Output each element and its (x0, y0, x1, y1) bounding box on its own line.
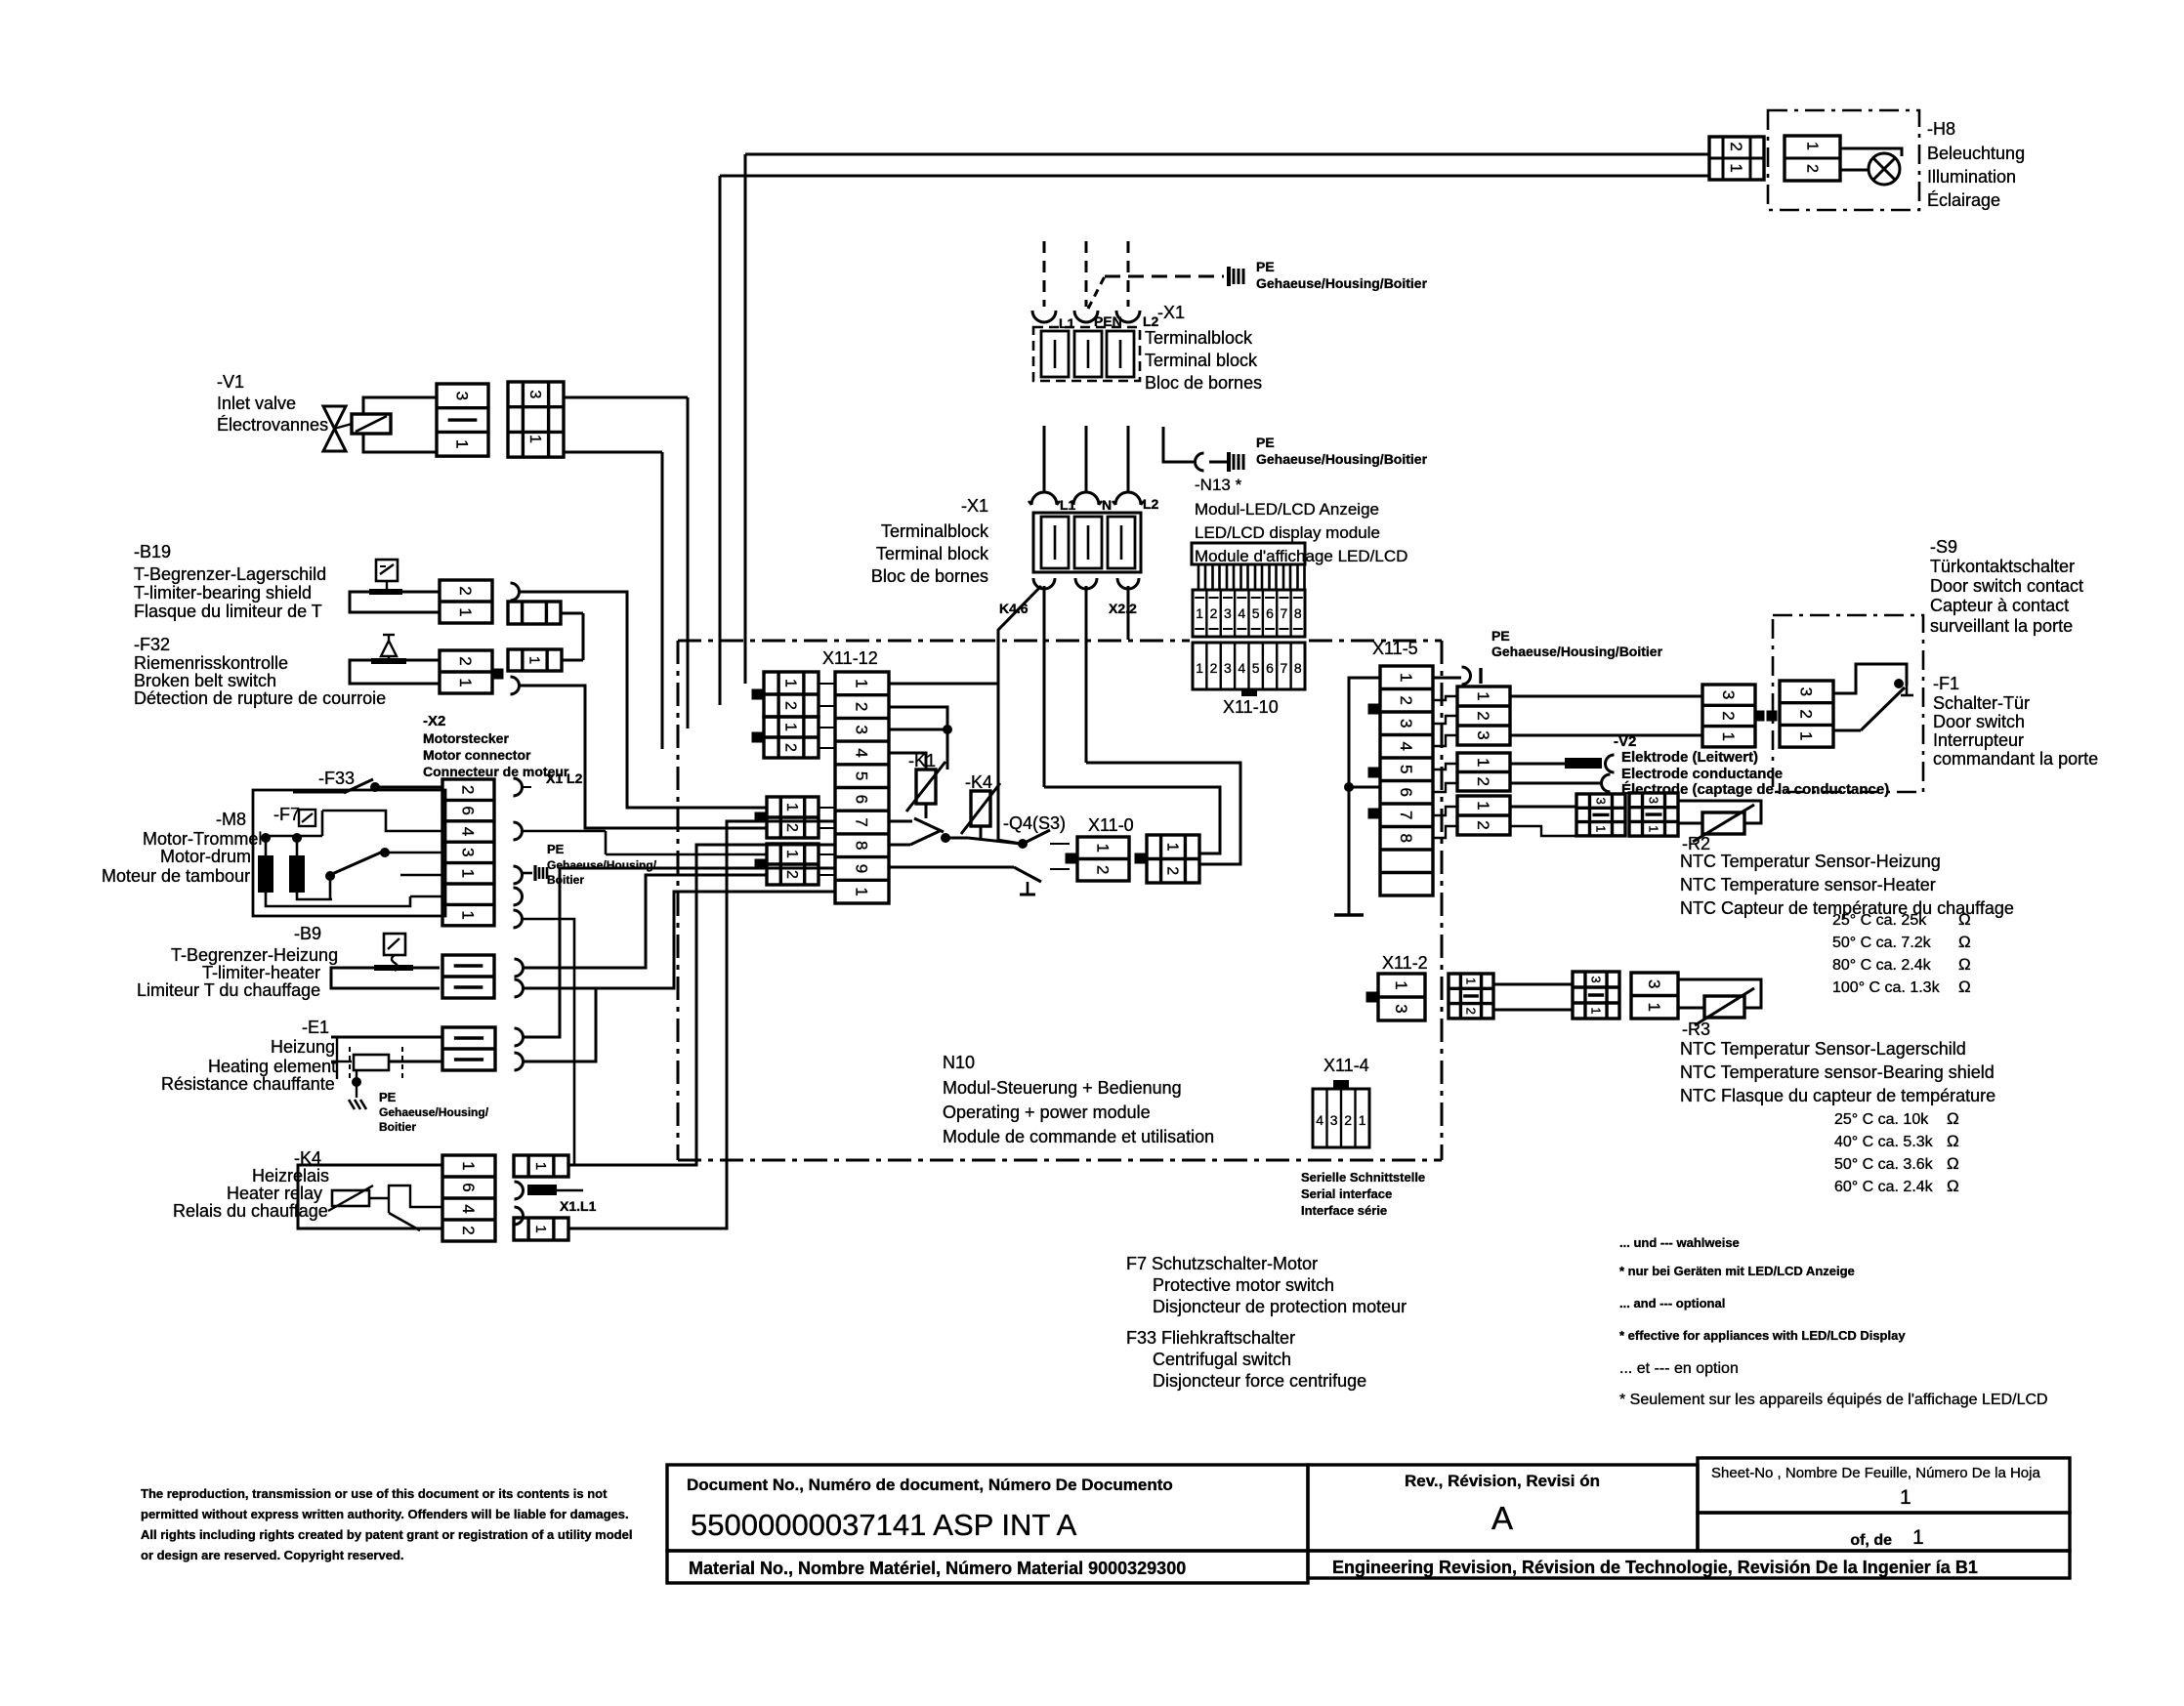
svg-text:Motor-Trommel: Motor-Trommel (143, 829, 262, 849)
svg-text:surveillant la porte: surveillant la porte (1930, 616, 2073, 636)
svg-text:Illumination: Illumination (1927, 167, 2016, 187)
svg-text:Relais du chauffage: Relais du chauffage (173, 1201, 328, 1221)
svg-text:5: 5 (1252, 660, 1260, 676)
svg-text:2: 2 (456, 586, 475, 595)
svg-text:3: 3 (1392, 1004, 1410, 1013)
svg-text:Elektrode (Leitwert): Elektrode (Leitwert) (1621, 749, 1758, 766)
svg-text:4: 4 (459, 827, 478, 836)
svg-text:NTC Temperature sensor-Bearing: NTC Temperature sensor-Bearing shield (1680, 1062, 1995, 1082)
svg-text:3: 3 (853, 726, 871, 734)
svg-text:-H8: -H8 (1927, 119, 1955, 139)
svg-text:T-Begrenzer-Lagerschild: T-Begrenzer-Lagerschild (134, 564, 326, 584)
svg-text:NTC Temperature sensor-Heater: NTC Temperature sensor-Heater (1680, 875, 1936, 895)
svg-text:2: 2 (1803, 164, 1820, 173)
svg-text:1: 1 (1196, 660, 1203, 676)
svg-text:7: 7 (1281, 605, 1288, 621)
svg-text:T-limiter-bearing shield: T-limiter-bearing shield (134, 583, 312, 603)
svg-text:1: 1 (1912, 1526, 1924, 1549)
svg-text:2: 2 (781, 743, 798, 752)
svg-text:Heating element: Heating element (208, 1057, 336, 1076)
svg-text:1: 1 (1645, 1003, 1663, 1012)
svg-text:Motor-drum: Motor-drum (160, 847, 251, 866)
svg-text:PE: PE (1256, 435, 1275, 450)
svg-text:3: 3 (1645, 979, 1663, 988)
svg-text:Interface série: Interface série (1301, 1203, 1387, 1218)
svg-text:2: 2 (1797, 709, 1816, 718)
svg-text:-X1: -X1 (1157, 303, 1185, 322)
svg-text:7: 7 (1281, 660, 1288, 676)
svg-text:1: 1 (1727, 163, 1745, 172)
svg-text:-B19: -B19 (134, 542, 171, 562)
svg-text:1: 1 (1803, 142, 1820, 150)
svg-text:Serial interface: Serial interface (1301, 1186, 1392, 1201)
svg-text:F33 Fliehkraftschalter: F33 Fliehkraftschalter (1126, 1328, 1295, 1348)
svg-text:4: 4 (1238, 660, 1245, 676)
svg-text:1: 1 (1463, 978, 1478, 984)
svg-text:9: 9 (853, 864, 871, 873)
svg-text:1: 1 (783, 850, 800, 858)
svg-text:25° C ca. 10k: 25° C ca. 10k (1834, 1111, 1929, 1128)
svg-text:Disjoncteur force centrifuge: Disjoncteur force centrifuge (1153, 1371, 1366, 1391)
svg-text:X11-0: X11-0 (1088, 815, 1134, 835)
svg-text:-F33: -F33 (318, 769, 355, 788)
svg-text:F7 Schutzschalter-Motor: F7 Schutzschalter-Motor (1126, 1254, 1318, 1273)
svg-text:Terminal block: Terminal block (876, 544, 989, 563)
svg-text:L2: L2 (1143, 496, 1159, 512)
svg-text:* Seulement sur les appareils: * Seulement sur les appareils équipés de… (1619, 1392, 2048, 1408)
svg-text:Sheet-No , Nombre De Feuille,: Sheet-No , Nombre De Feuille, Número De … (1711, 1465, 2040, 1481)
svg-text:Ω: Ω (1958, 978, 1971, 996)
svg-text:-K4: -K4 (965, 772, 992, 792)
svg-text:3: 3 (1719, 690, 1738, 699)
svg-text:1: 1 (1196, 605, 1203, 621)
svg-text:100° C ca. 1.3k: 100° C ca. 1.3k (1832, 979, 1941, 996)
svg-text:X11-10: X11-10 (1223, 697, 1279, 717)
svg-text:Heater relay: Heater relay (227, 1184, 322, 1203)
svg-text:Ω: Ω (1958, 955, 1971, 974)
svg-text:X11-4: X11-4 (1323, 1056, 1369, 1075)
svg-text:3: 3 (1588, 976, 1603, 982)
svg-text:1: 1 (459, 910, 478, 919)
svg-text:permitted without express wri: permitted without express written author… (141, 1507, 629, 1521)
svg-text:2: 2 (1474, 820, 1492, 829)
svg-text:3: 3 (1224, 605, 1232, 621)
svg-text:1: 1 (456, 607, 475, 616)
svg-text:-M8: -M8 (216, 810, 246, 829)
svg-text:5: 5 (1252, 605, 1260, 621)
svg-text:NTC Temperatur Sensor-Heizung: NTC Temperatur Sensor-Heizung (1680, 852, 1941, 871)
svg-text:1: 1 (1588, 1007, 1603, 1014)
svg-text:Rev., Révision, Revisi ón: Rev., Révision, Revisi ón (1405, 1472, 1600, 1490)
svg-text:-X2: -X2 (423, 713, 445, 729)
svg-text:Bloc de bornes: Bloc de bornes (1145, 373, 1262, 393)
svg-text:Terminalblock: Terminalblock (1145, 328, 1253, 348)
svg-text:Gehaeuse/Housing/Boitier: Gehaeuse/Housing/Boitier (1256, 451, 1428, 467)
svg-text:A: A (1491, 1500, 1513, 1536)
svg-text:1: 1 (459, 869, 478, 878)
svg-text:T-Begrenzer-Heizung: T-Begrenzer-Heizung (171, 945, 338, 965)
svg-text:6: 6 (1397, 788, 1415, 797)
svg-text:2: 2 (1463, 1008, 1478, 1015)
svg-text:Gehaeuse/Housing/: Gehaeuse/Housing/ (547, 858, 657, 872)
svg-text:3: 3 (459, 848, 478, 856)
svg-text:Gehaeuse/Housing/Boitier: Gehaeuse/Housing/Boitier (1256, 275, 1428, 291)
svg-text:4: 4 (459, 1204, 478, 1213)
svg-text:Électrovannes: Électrovannes (217, 415, 328, 435)
svg-text:4: 4 (1238, 605, 1245, 621)
svg-text:Terminal block: Terminal block (1145, 351, 1258, 370)
svg-text:-R2: -R2 (1682, 834, 1710, 853)
svg-text:2: 2 (1397, 696, 1415, 705)
svg-text:2: 2 (1210, 605, 1218, 621)
svg-text:Operating + power module: Operating + power module (943, 1103, 1151, 1122)
svg-text:2: 2 (1210, 660, 1218, 676)
svg-text:Electrode conductance: Electrode conductance (1621, 766, 1783, 782)
svg-text:2: 2 (1344, 1112, 1352, 1128)
svg-text:3: 3 (1797, 687, 1816, 696)
svg-text:of, de: of, de (1850, 1532, 1892, 1549)
svg-text:-S9: -S9 (1930, 537, 1957, 557)
svg-text:2: 2 (1474, 777, 1492, 786)
svg-text:1: 1 (525, 656, 542, 664)
svg-text:-V1: -V1 (217, 372, 244, 392)
svg-text:1: 1 (532, 1225, 549, 1232)
svg-text:-F7: -F7 (273, 805, 300, 824)
svg-text:2: 2 (459, 1226, 478, 1234)
svg-text:1: 1 (456, 678, 475, 687)
svg-text:1: 1 (1163, 843, 1180, 852)
svg-text:Modul-LED/LCD Anzeige: Modul-LED/LCD Anzeige (1195, 500, 1379, 519)
svg-text:3: 3 (1646, 797, 1660, 804)
svg-text:Heizung: Heizung (271, 1037, 335, 1057)
svg-text:LED/LCD display module: LED/LCD display module (1195, 523, 1380, 542)
svg-text:PE: PE (547, 842, 565, 856)
svg-text:1: 1 (853, 679, 871, 687)
svg-text:Engineering Revision, Révision: Engineering Revision, Révision de Techno… (1332, 1558, 1978, 1577)
svg-text:40° C ca. 5.3k: 40° C ca. 5.3k (1834, 1134, 1934, 1150)
svg-text:1: 1 (1646, 825, 1660, 832)
svg-text:... and --- optional: ... and --- optional (1619, 1296, 1725, 1311)
svg-text:Moteur de tambour: Moteur de tambour (102, 866, 250, 886)
svg-text:1: 1 (459, 1161, 478, 1170)
svg-text:-V2: -V2 (1614, 733, 1636, 750)
svg-text:Flasque du limiteur de T: Flasque du limiteur de T (134, 602, 322, 621)
svg-text:Motor connector: Motor connector (423, 747, 531, 763)
svg-text:Gehaeuse/Housing/: Gehaeuse/Housing/ (379, 1105, 489, 1119)
svg-text:8: 8 (1397, 834, 1415, 843)
svg-text:7: 7 (1397, 811, 1415, 819)
svg-text:The reproduction, transmission: The reproduction, transmission or use of… (141, 1486, 608, 1501)
svg-text:Inlet valve: Inlet valve (217, 394, 296, 413)
svg-text:8: 8 (1294, 605, 1302, 621)
svg-text:3: 3 (1224, 660, 1232, 676)
svg-text:2: 2 (459, 785, 478, 794)
svg-text:3: 3 (526, 390, 543, 398)
svg-text:Ω: Ω (1947, 1109, 1959, 1128)
svg-text:or design are reserved. Copyri: or design are reserved. Copyright reserv… (141, 1548, 404, 1562)
svg-text:NTC Temperatur Sensor-Lagersch: NTC Temperatur Sensor-Lagerschild (1680, 1039, 1966, 1059)
svg-text:Serielle Schnittstelle: Serielle Schnittstelle (1301, 1170, 1425, 1185)
svg-text:NTC Flasque du capteur de temp: NTC Flasque du capteur de température (1680, 1086, 1995, 1105)
svg-text:4: 4 (1397, 742, 1415, 751)
svg-text:Riemenrisskontrolle: Riemenrisskontrolle (134, 653, 288, 673)
svg-text:Module de commande et utilisat: Module de commande et utilisation (943, 1127, 1214, 1146)
svg-text:8: 8 (853, 841, 871, 850)
svg-text:X11-5: X11-5 (1372, 639, 1418, 658)
svg-text:1: 1 (1593, 825, 1608, 832)
svg-text:Interrupteur: Interrupteur (1933, 730, 2024, 750)
svg-text:-B9: -B9 (294, 924, 321, 943)
svg-text:Heizrelais: Heizrelais (252, 1166, 329, 1186)
svg-text:6: 6 (853, 795, 871, 804)
svg-text:Centrifugal switch: Centrifugal switch (1153, 1350, 1291, 1369)
svg-text:Ω: Ω (1958, 933, 1971, 951)
svg-text:1: 1 (1900, 1486, 1911, 1509)
svg-text:1: 1 (1392, 980, 1410, 989)
svg-text:Schalter-Tür: Schalter-Tür (1933, 693, 2030, 713)
svg-text:Capteur à contact: Capteur à contact (1930, 596, 2069, 615)
svg-text:N10: N10 (943, 1053, 975, 1072)
svg-text:X11-2: X11-2 (1382, 953, 1428, 973)
svg-text:PE: PE (379, 1090, 397, 1104)
svg-text:25° C ca. 25k: 25° C ca. 25k (1832, 912, 1927, 929)
svg-text:T-limiter-heater: T-limiter-heater (202, 963, 320, 982)
svg-text:Limiteur T du chauffage: Limiteur T du chauffage (137, 980, 320, 1000)
svg-text:3: 3 (1330, 1112, 1338, 1128)
svg-text:6: 6 (1266, 605, 1274, 621)
svg-text:-N13 *: -N13 * (1195, 476, 1242, 494)
svg-text:N: N (1102, 497, 1112, 513)
svg-text:... und --- wahlweise: ... und --- wahlweise (1619, 1235, 1740, 1250)
svg-text:-X1: -X1 (961, 496, 988, 516)
svg-text:50° C ca. 7.2k: 50° C ca. 7.2k (1832, 935, 1932, 951)
svg-text:2: 2 (853, 702, 871, 711)
svg-text:6: 6 (459, 1183, 478, 1191)
svg-text:-R3: -R3 (1682, 1019, 1710, 1039)
svg-text:80° C ca. 2.4k: 80° C ca. 2.4k (1832, 957, 1932, 974)
svg-text:Ω: Ω (1947, 1177, 1959, 1195)
svg-text:2: 2 (781, 701, 798, 710)
svg-text:Module d'affichage LED/LCD: Module d'affichage LED/LCD (1195, 547, 1407, 565)
svg-text:Door switch contact: Door switch contact (1930, 576, 2083, 596)
svg-text:L1: L1 (1059, 315, 1075, 331)
svg-text:2: 2 (1163, 866, 1180, 875)
svg-text:Boitier: Boitier (379, 1120, 416, 1134)
svg-text:Ω: Ω (1947, 1132, 1959, 1150)
svg-text:Terminalblock: Terminalblock (881, 521, 989, 541)
svg-text:Électrode (captage de la condu: Électrode (captage de la conductance) (1621, 781, 1889, 798)
svg-text:5: 5 (1397, 765, 1415, 773)
svg-text:2: 2 (456, 656, 475, 665)
svg-text:3: 3 (1593, 798, 1608, 805)
svg-text:Motorstecker: Motorstecker (423, 730, 509, 746)
svg-text:X1 L2: X1 L2 (546, 770, 583, 786)
svg-text:2: 2 (1719, 711, 1738, 720)
svg-text:1: 1 (1797, 731, 1816, 740)
svg-text:1: 1 (1094, 844, 1113, 853)
svg-text:Protective motor switch: Protective motor switch (1153, 1275, 1334, 1295)
svg-text:1: 1 (781, 679, 798, 687)
svg-text:Material No., Nombre Matériel,: Material No., Nombre Matériel, Número Ma… (689, 1559, 1186, 1578)
svg-text:Door switch: Door switch (1933, 712, 2025, 731)
svg-text:2: 2 (783, 823, 800, 832)
svg-text:7: 7 (853, 817, 871, 826)
svg-text:3: 3 (453, 392, 472, 400)
svg-text:1: 1 (1719, 732, 1738, 741)
svg-text:PE: PE (1491, 628, 1510, 644)
svg-text:-F32: -F32 (134, 635, 170, 654)
svg-text:X2.2: X2.2 (1109, 601, 1137, 616)
svg-text:1: 1 (1397, 673, 1415, 682)
svg-text:Gehaeuse/Housing/Boitier: Gehaeuse/Housing/Boitier (1491, 644, 1663, 659)
svg-text:4: 4 (1316, 1112, 1323, 1128)
svg-text:55000000037141 ASP INT A: 55000000037141 ASP INT A (691, 1508, 1077, 1542)
svg-text:Document No., Numéro de docume: Document No., Numéro de document, Número… (687, 1476, 1173, 1494)
svg-text:L1: L1 (1060, 497, 1076, 513)
svg-text:1: 1 (1359, 1112, 1366, 1128)
svg-text:Éclairage: Éclairage (1927, 190, 2000, 210)
svg-text:Bloc de bornes: Bloc de bornes (871, 566, 988, 586)
svg-text:1: 1 (453, 439, 472, 448)
svg-text:2: 2 (1094, 865, 1113, 874)
svg-text:2: 2 (783, 870, 800, 879)
svg-text:Ω: Ω (1958, 910, 1971, 929)
svg-text:Boitier: Boitier (547, 873, 584, 887)
svg-text:1: 1 (781, 723, 798, 731)
svg-text:Détection de rupture de courro: Détection de rupture de courroie (134, 688, 386, 708)
svg-text:Disjoncteur de protection mote: Disjoncteur de protection moteur (1153, 1297, 1407, 1316)
svg-text:Broken belt switch: Broken belt switch (134, 671, 276, 690)
svg-text:1: 1 (532, 1162, 549, 1170)
svg-text:6: 6 (459, 806, 478, 814)
svg-text:X11-12: X11-12 (822, 648, 878, 668)
svg-text:1: 1 (853, 887, 871, 895)
svg-text:Modul-Steuerung + Bedienung: Modul-Steuerung + Bedienung (943, 1078, 1182, 1098)
svg-text:2: 2 (1474, 711, 1492, 720)
svg-text:-E1: -E1 (302, 1018, 329, 1037)
svg-text:4: 4 (853, 748, 871, 757)
svg-text:6: 6 (1266, 660, 1274, 676)
svg-text:commandant la porte: commandant la porte (1933, 749, 2098, 769)
svg-text:X1.L1: X1.L1 (560, 1198, 597, 1214)
svg-text:1: 1 (526, 435, 543, 443)
svg-text:1: 1 (1474, 691, 1492, 700)
svg-text:60° C ca. 2.4k: 60° C ca. 2.4k (1834, 1179, 1934, 1195)
svg-text:8: 8 (1294, 660, 1302, 676)
svg-text:1: 1 (1474, 758, 1492, 767)
svg-text:Beleuchtung: Beleuchtung (1927, 144, 2025, 163)
svg-text:PE: PE (1256, 259, 1275, 274)
svg-text:3: 3 (1474, 730, 1492, 739)
svg-text:* nur bei Geräten mit LED/LCD: * nur bei Geräten mit LED/LCD Anzeige (1619, 1264, 1855, 1278)
svg-text:Türkontaktschalter: Türkontaktschalter (1930, 557, 2075, 576)
svg-text:All rights including rights cr: All rights including rights created by p… (141, 1527, 632, 1542)
svg-text:-K1: -K1 (908, 751, 936, 770)
svg-text:1: 1 (783, 803, 800, 811)
svg-text:1: 1 (1474, 801, 1492, 810)
svg-text:-F1: -F1 (1933, 674, 1959, 693)
svg-text:3: 3 (1397, 719, 1415, 728)
svg-text:-Q4(S3): -Q4(S3) (1003, 813, 1066, 833)
svg-text:2: 2 (1727, 142, 1745, 150)
svg-text:... et --- en option: ... et --- en option (1619, 1360, 1739, 1377)
svg-text:5: 5 (853, 771, 871, 780)
svg-text:Résistance chauffante: Résistance chauffante (161, 1074, 335, 1094)
svg-text:* effective for appliances wit: * effective for appliances with LED/LCD … (1619, 1328, 1906, 1343)
svg-text:Ω: Ω (1947, 1154, 1959, 1173)
svg-text:50° C ca. 3.6k: 50° C ca. 3.6k (1834, 1156, 1934, 1173)
